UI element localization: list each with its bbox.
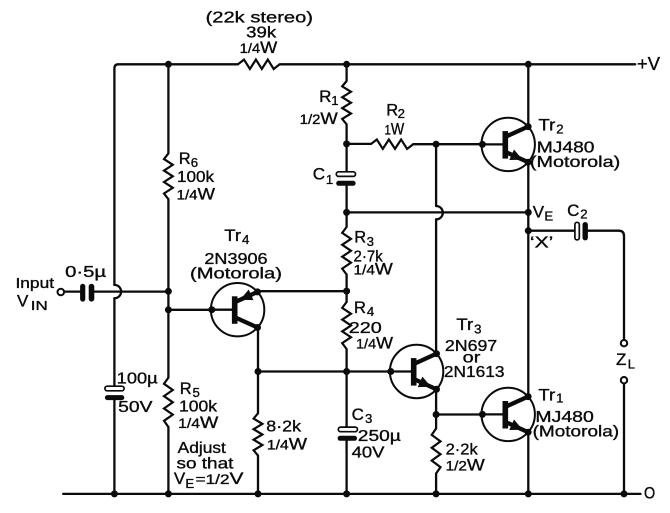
label R1 (319, 87, 338, 108)
junction dot top rail / R6 (165, 61, 172, 68)
wire Tr4 emitter to R3/R4 junction (259, 290, 347, 292)
label R6 (179, 150, 198, 170)
label so that (177, 456, 235, 473)
junction dot R1/R2/C1 (343, 140, 350, 147)
svg-text:(Motorola): (Motorola) (533, 423, 620, 440)
wire R2 right junction down to Tr3 collector with hop over VE line (436, 144, 443, 354)
svg-text:1W: 1W (385, 119, 405, 138)
wire input coupling: terminal to capacitor (64, 290, 80, 292)
label C1 (313, 165, 334, 187)
svg-text:50V: 50V (118, 399, 153, 416)
svg-text:R: R (179, 150, 191, 168)
label Tr2 maker (Motorola) (530, 154, 620, 171)
svg-text:1/4W: 1/4W (356, 334, 393, 353)
label 0.5u value (65, 264, 106, 281)
label 39k wattage 1/4W (240, 38, 278, 57)
svg-text:1/4W: 1/4W (178, 413, 218, 432)
label Tr4 maker (Motorola) (190, 265, 282, 282)
svg-text:3: 3 (474, 321, 481, 336)
load ZL upper terminal circle (621, 340, 627, 346)
svg-text:R: R (180, 380, 192, 398)
resistor 8.2k 1/4W (254, 413, 263, 455)
label R6 wattage 1/4W (177, 185, 215, 204)
resistor R2 1W (371, 140, 414, 149)
junction dot top rail / Tr2 collector (525, 61, 532, 68)
label R4 (354, 299, 374, 319)
label 0V rail O (644, 483, 655, 502)
wire +V top supply rail left of 39k with rounded corner into left branch, hop over input wire (114, 64, 238, 386)
wire node X to C2 (528, 230, 575, 232)
transistor Tr2 MJ480 NPN (479, 118, 535, 171)
label Input (16, 276, 55, 292)
svg-text:Tr: Tr (539, 117, 556, 135)
label Tr1 maker (Motorola) (533, 423, 620, 440)
label R4 value 220 (349, 320, 382, 337)
wire Tr3 emitter down through 2.2k to 0V rail (435, 389, 437, 494)
svg-text:V: V (17, 292, 29, 311)
label R4 wattage 1/4W (356, 334, 393, 353)
resistor 39k 1/4W (22k stereo) in top rail (238, 60, 280, 69)
junction dot R3/R4/Tr4 emitter (343, 288, 350, 295)
label R2 wattage 1W (385, 119, 405, 138)
junction dot top rail / R1 (343, 61, 350, 68)
junction dot 0V rail / R5 (165, 490, 172, 497)
junction dot 0V rail / 8.2k (255, 490, 262, 497)
wire +V top supply rail right of 39k resistor (280, 63, 636, 65)
label 2.2k wattage 1/2W (446, 456, 485, 475)
label Tr4 part 2N3906 (204, 251, 267, 268)
svg-text:100k: 100k (177, 169, 215, 186)
label C3 voltage 40V (352, 445, 385, 462)
svg-text:40V: 40V (352, 445, 385, 462)
svg-text:2: 2 (556, 121, 563, 136)
svg-text:(Motorola): (Motorola) (530, 154, 620, 171)
label R1 wattage 1/2W (300, 109, 338, 128)
svg-text:Adjust: Adjust (178, 440, 227, 457)
wire input capacitor to base node (crosses left branch) (94, 290, 168, 292)
svg-text:‘X’: ‘X’ (530, 235, 553, 252)
svg-text:R: R (354, 299, 366, 317)
svg-text:6: 6 (191, 155, 198, 170)
label R5 value 100k (179, 398, 218, 415)
svg-text:1/4W: 1/4W (240, 38, 278, 57)
junction dot 0V rail / left branch (111, 490, 118, 497)
junction dot Tr4 base node (165, 306, 172, 313)
label R5 (180, 380, 200, 400)
label VE = 1/2V adjustment (174, 469, 244, 491)
junction dot Tr4 collector line / Tr3 base wire (255, 368, 262, 375)
wire Tr1 emitter to 0V rail (527, 432, 529, 494)
label Tr3 alt part 2N1613 (444, 364, 505, 381)
label Adjust (178, 440, 227, 457)
label or (463, 350, 482, 367)
label C3 (352, 405, 373, 426)
svg-text:1/4W: 1/4W (177, 185, 215, 204)
svg-text:8·2k: 8·2k (266, 418, 302, 435)
label C3 value 250u (358, 428, 401, 445)
label VIN (17, 292, 48, 314)
wire Tr4 collector down to 8.2k and 0V rail (257, 328, 259, 494)
wire left branch below 100u capacitor to 0V rail (113, 400, 115, 494)
wire R6/R5 bias divider vertical (top rail to 0V) (167, 64, 169, 494)
capacitor C3 250u 40V (338, 427, 358, 441)
wire R2 right to Tr2 base (413, 143, 482, 145)
svg-text:1: 1 (331, 93, 338, 108)
label Tr3 designator (456, 316, 481, 337)
resistor R6 100k 1/4W (164, 153, 173, 199)
svg-text:Tr: Tr (538, 386, 555, 404)
svg-text:2N1613: 2N1613 (444, 364, 505, 381)
label 8.2k wattage 1/4W (267, 435, 307, 454)
resistor R3 2.7k 1/4W (342, 227, 351, 275)
svg-text:Input: Input (16, 276, 55, 292)
capacitor 0.5u input coupling (80, 284, 94, 302)
svg-text:C: C (567, 201, 579, 220)
svg-text:E: E (185, 476, 194, 491)
svg-text:=1/2V: =1/2V (196, 469, 245, 488)
label R3 value 2.7k (354, 249, 384, 266)
capacitor C1 (336, 172, 355, 186)
resistor 2.2k 1/2W (432, 429, 441, 474)
wire Tr2 emitter to node VE / X / Tr1 collector (527, 162, 529, 397)
svg-text:L: L (628, 357, 635, 372)
wire 0V bottom rail (63, 493, 640, 495)
label 2.2k value (446, 442, 479, 459)
resistor R1 1/2W (342, 81, 351, 124)
svg-text:100µ: 100µ (117, 370, 158, 387)
svg-text:O: O (644, 483, 655, 502)
label 39k value (246, 25, 277, 42)
label load ZL (616, 350, 635, 371)
svg-text:1/4W: 1/4W (354, 259, 393, 278)
wire ZL lower terminal to 0V rail (623, 384, 625, 494)
svg-text:Tr: Tr (456, 316, 473, 334)
label R3 (354, 229, 374, 249)
label Tr1 designator (538, 386, 563, 405)
junction dot input node (165, 288, 172, 295)
svg-text:2: 2 (580, 206, 587, 221)
svg-text:1: 1 (556, 391, 563, 406)
svg-text:C: C (313, 165, 325, 184)
svg-text:(Motorola): (Motorola) (190, 265, 282, 282)
junction dot R2/Tr3 collector line (433, 141, 440, 148)
resistor R5 100k 1/4W (164, 378, 173, 427)
label Tr2 part MJ480 (537, 139, 595, 156)
junction dot node VE (525, 209, 532, 216)
load ZL lower terminal circle (621, 377, 627, 383)
junction dot R4/C3/Tr3 base (343, 368, 350, 375)
wire Tr2 collector to +V rail (527, 64, 529, 126)
junction dot Tr3 emitter / 2.2k / Tr1 base (433, 411, 440, 418)
junction dot C1/R3/VE line (343, 209, 350, 216)
svg-text:3: 3 (367, 234, 374, 249)
wire Tr4 base from divider node (168, 309, 212, 311)
capacitor 100u 50V supply decoupling (105, 386, 124, 400)
svg-text:V: V (174, 469, 186, 488)
label (22k stereo) (206, 10, 313, 27)
svg-text:3: 3 (365, 411, 372, 426)
junction dot 0V rail / Tr1 emitter (525, 490, 532, 497)
label 100u value (117, 370, 158, 387)
svg-text:Tr: Tr (224, 227, 241, 245)
transistor Tr4 2N3906 PNP (208, 283, 264, 336)
label 8.2k value (266, 418, 302, 435)
junction dot 0V rail / ZL (621, 490, 628, 497)
input terminal circle (58, 289, 65, 296)
label Tr1 part MJ480 (535, 409, 594, 426)
wire R1/C1/R3/R4/C3 chain vertical segments (345, 64, 347, 494)
label R2 (386, 101, 405, 121)
svg-text:R: R (386, 101, 398, 119)
svg-text:Z: Z (616, 350, 626, 369)
svg-text:V: V (533, 203, 545, 222)
junction dot node X (525, 227, 532, 234)
label node VE (533, 203, 554, 224)
svg-text:+V: +V (637, 53, 661, 74)
label R3 wattage 1/4W (354, 259, 393, 278)
svg-text:1/2W: 1/2W (300, 109, 338, 128)
wire Tr1 base from Tr3 emitter node (436, 413, 482, 415)
svg-text:4: 4 (367, 304, 374, 319)
label 50V value (118, 399, 153, 416)
label R5 wattage 1/4W (178, 413, 218, 432)
label Tr3 part 2N697 (445, 338, 497, 355)
wire C2 to load with rounded corner down to ZL terminal (588, 231, 624, 340)
label Tr2 designator (539, 117, 564, 137)
wire VE feedback line from C1/R3 junction to Tr2 emitter (347, 211, 529, 213)
transistor Tr1 MJ480 NPN (479, 388, 535, 441)
junction dot 0V rail / 2.2k (433, 490, 440, 497)
svg-text:C: C (352, 405, 364, 424)
capacitor C2 output coupling (575, 222, 588, 240)
junction dot 0V rail / C3 (343, 490, 350, 497)
svg-text:R: R (319, 87, 331, 106)
svg-text:0·5µ: 0·5µ (65, 264, 106, 281)
svg-text:1/4W: 1/4W (267, 435, 307, 454)
transistor Tr3 2N697/2N1613 NPN (387, 345, 443, 398)
svg-text:1: 1 (326, 172, 333, 187)
wire Tr3 base from Tr4 collector node (258, 370, 391, 372)
resistor R4 220 1/4W (342, 302, 351, 349)
label C2 (567, 201, 588, 222)
svg-text:E: E (544, 208, 553, 223)
svg-text:IN: IN (31, 298, 48, 313)
label node X (530, 235, 553, 252)
label R6 value 100k (177, 169, 215, 186)
svg-text:R: R (354, 229, 366, 247)
svg-text:250µ: 250µ (358, 428, 401, 445)
label Tr4 designator (224, 227, 249, 247)
wire R2 left connect (347, 143, 371, 145)
svg-text:1/2W: 1/2W (446, 456, 485, 475)
svg-text:4: 4 (242, 232, 249, 247)
label +V supply (637, 53, 661, 74)
